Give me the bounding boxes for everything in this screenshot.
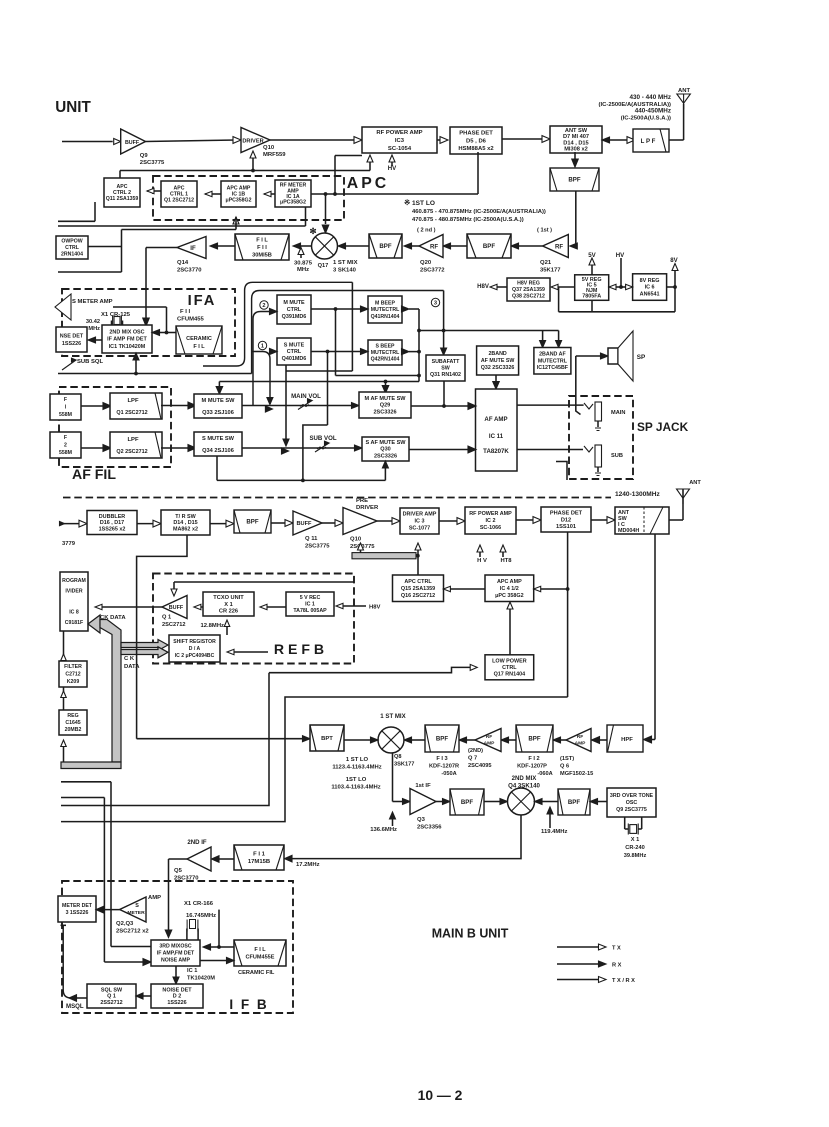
svg-text:Q33 2SJ106: Q33 2SJ106 bbox=[202, 410, 234, 416]
svg-text:558M: 558M bbox=[59, 450, 72, 456]
svg-text:( 2 nd ): ( 2 nd ) bbox=[417, 228, 436, 234]
svg-text:DATA: DATA bbox=[124, 664, 140, 670]
svg-text:T X / R X: T X / R X bbox=[612, 978, 635, 984]
svg-text:430 - 440 MHz: 430 - 440 MHz bbox=[629, 94, 671, 101]
svg-text:BUFF: BUFF bbox=[296, 521, 312, 527]
svg-text:Q8: Q8 bbox=[394, 754, 402, 760]
svg-text:K209: K209 bbox=[67, 679, 80, 685]
svg-text:TK10420M: TK10420M bbox=[187, 976, 215, 982]
svg-text:-060A: -060A bbox=[537, 771, 552, 777]
svg-text:Q31 RN1402: Q31 RN1402 bbox=[430, 372, 461, 378]
svg-text:BPF: BPF bbox=[436, 736, 448, 743]
svg-text:IF AMP,FM DET: IF AMP,FM DET bbox=[157, 951, 195, 957]
svg-text:AF FIL: AF FIL bbox=[72, 466, 116, 482]
svg-text:1103.4-1163.4MHz: 1103.4-1163.4MHz bbox=[331, 785, 380, 791]
svg-text:SC-1054: SC-1054 bbox=[388, 146, 412, 152]
svg-text:2BAND: 2BAND bbox=[488, 351, 506, 357]
svg-text:3779: 3779 bbox=[62, 541, 76, 547]
svg-text:SQL SW: SQL SW bbox=[101, 987, 123, 993]
svg-text:2ND MIX OSC: 2ND MIX OSC bbox=[109, 329, 144, 335]
svg-text:OWPOW: OWPOW bbox=[61, 239, 82, 245]
svg-text:F: F bbox=[64, 397, 67, 403]
svg-text:F I 1: F I 1 bbox=[253, 852, 265, 858]
svg-text:136.6MHz: 136.6MHz bbox=[370, 827, 397, 833]
svg-text:RF: RF bbox=[430, 244, 438, 251]
svg-text:Q38 2SC2712: Q38 2SC2712 bbox=[512, 294, 545, 300]
svg-text:RF POWER AMP: RF POWER AMP bbox=[469, 511, 512, 517]
svg-text:2ND IF: 2ND IF bbox=[187, 839, 207, 846]
svg-text:3 SK140: 3 SK140 bbox=[333, 268, 357, 274]
svg-text:Q34 2SJ106: Q34 2SJ106 bbox=[202, 448, 234, 454]
svg-text:30.42: 30.42 bbox=[86, 319, 100, 325]
svg-text:IC 4 1/2: IC 4 1/2 bbox=[500, 586, 519, 592]
svg-text:MA862 x2: MA862 x2 bbox=[173, 527, 198, 533]
svg-text:FILTER: FILTER bbox=[64, 664, 82, 670]
svg-text:HV: HV bbox=[616, 252, 625, 259]
svg-text:MAIN B UNIT: MAIN B UNIT bbox=[432, 927, 509, 941]
svg-text:1: 1 bbox=[261, 344, 264, 350]
svg-text:CR 226: CR 226 bbox=[219, 609, 238, 615]
svg-text:Q1 2SC2712: Q1 2SC2712 bbox=[116, 410, 147, 416]
svg-text:REG: REG bbox=[67, 713, 78, 719]
svg-text:2RN1404: 2RN1404 bbox=[61, 252, 83, 258]
svg-text:APC AMP: APC AMP bbox=[497, 579, 522, 585]
svg-text:C K: C K bbox=[124, 656, 135, 662]
svg-text:1SS265 x2: 1SS265 x2 bbox=[99, 527, 126, 533]
svg-text:BPF: BPF bbox=[379, 243, 391, 250]
svg-text:HSM88A5 x2: HSM88A5 x2 bbox=[458, 146, 494, 152]
svg-text:BPF: BPF bbox=[461, 799, 473, 806]
svg-text:X1 CR-166: X1 CR-166 bbox=[184, 901, 214, 907]
svg-text:UNIT: UNIT bbox=[55, 99, 91, 116]
svg-text:CFUM455E: CFUM455E bbox=[246, 954, 275, 960]
svg-text:AMP: AMP bbox=[148, 895, 161, 901]
svg-text:SW: SW bbox=[441, 366, 450, 372]
svg-text:Q401MD6: Q401MD6 bbox=[282, 356, 307, 362]
svg-text:440-450MHz: 440-450MHz bbox=[635, 108, 671, 115]
svg-text:R X: R X bbox=[612, 963, 622, 969]
svg-text:MI308 x2: MI308 x2 bbox=[564, 147, 588, 153]
svg-text:16.745MHz: 16.745MHz bbox=[186, 913, 216, 919]
svg-text:LPF: LPF bbox=[127, 398, 139, 404]
svg-text:Q20: Q20 bbox=[420, 260, 432, 266]
svg-text:R E F B: R E F B bbox=[274, 641, 324, 657]
svg-text:IVIDER: IVIDER bbox=[65, 589, 83, 595]
svg-text:BPF: BPF bbox=[528, 736, 540, 743]
svg-text:2: 2 bbox=[262, 303, 265, 309]
svg-text:2SC3775: 2SC3775 bbox=[305, 544, 330, 550]
svg-text:2SC3326: 2SC3326 bbox=[374, 453, 397, 459]
svg-text:Q42RN1404: Q42RN1404 bbox=[371, 357, 400, 363]
svg-text:Q17: Q17 bbox=[318, 263, 329, 269]
svg-text:AMP: AMP bbox=[484, 741, 496, 747]
svg-text:Q9 2SC3775: Q9 2SC3775 bbox=[616, 807, 647, 813]
svg-text:CK DATA: CK DATA bbox=[100, 615, 126, 621]
svg-text:F I L: F I L bbox=[254, 947, 266, 953]
svg-text:Q10: Q10 bbox=[350, 537, 362, 543]
svg-text:Q391MD6: Q391MD6 bbox=[282, 314, 307, 320]
svg-text:Q14: Q14 bbox=[177, 260, 189, 266]
svg-text:CTRL: CTRL bbox=[502, 665, 517, 671]
svg-text:TCXO UNIT: TCXO UNIT bbox=[213, 595, 244, 601]
svg-text:10 — 2: 10 — 2 bbox=[418, 1087, 463, 1103]
svg-text:Q2,Q3: Q2,Q3 bbox=[116, 921, 134, 927]
svg-text:3RD OVER TONE: 3RD OVER TONE bbox=[610, 793, 654, 799]
svg-text:Q 7: Q 7 bbox=[468, 756, 477, 762]
svg-text:AF MUTE SW: AF MUTE SW bbox=[481, 358, 515, 364]
svg-text:SP: SP bbox=[637, 354, 645, 361]
svg-text:NOISE AMP: NOISE AMP bbox=[161, 958, 190, 964]
svg-text:SC-1066: SC-1066 bbox=[480, 525, 501, 531]
svg-text:IF AMP FM DET: IF AMP FM DET bbox=[107, 337, 147, 343]
svg-text:IC 8: IC 8 bbox=[69, 610, 79, 616]
svg-text:MHz: MHz bbox=[297, 267, 309, 273]
svg-text:2SC2712: 2SC2712 bbox=[162, 622, 186, 628]
svg-text:D14 , D15: D14 , D15 bbox=[563, 140, 588, 146]
svg-text:MAIN: MAIN bbox=[611, 410, 625, 416]
svg-text:I F B: I F B bbox=[229, 997, 268, 1012]
svg-text:IC 2: IC 2 bbox=[486, 518, 496, 524]
svg-text:BPF: BPF bbox=[246, 519, 258, 526]
svg-text:SP JACK: SP JACK bbox=[637, 420, 689, 434]
svg-text:-050A: -050A bbox=[441, 771, 456, 777]
svg-text:D14 , D15: D14 , D15 bbox=[173, 520, 197, 526]
svg-text:Q 11: Q 11 bbox=[305, 536, 318, 542]
svg-text:CR-240: CR-240 bbox=[625, 845, 644, 851]
svg-text:3RD MIXOSC: 3RD MIXOSC bbox=[159, 944, 192, 950]
svg-text:C1645: C1645 bbox=[65, 720, 80, 726]
svg-text:NSE DET: NSE DET bbox=[60, 334, 84, 340]
svg-text:2ND MIX: 2ND MIX bbox=[512, 775, 538, 782]
svg-text:8V REG: 8V REG bbox=[640, 278, 660, 284]
svg-text:20MB2: 20MB2 bbox=[65, 727, 82, 733]
svg-text:30MI5B: 30MI5B bbox=[252, 252, 272, 258]
svg-text:2SC3770: 2SC3770 bbox=[177, 268, 202, 274]
svg-text:METER: METER bbox=[127, 910, 145, 916]
svg-text:1123.4-1163.4MHz: 1123.4-1163.4MHz bbox=[332, 765, 381, 771]
svg-text:F I I: F I I bbox=[180, 309, 190, 315]
svg-text:MHz: MHz bbox=[88, 326, 100, 332]
svg-text:MD004H: MD004H bbox=[618, 528, 639, 534]
svg-text:IC 11: IC 11 bbox=[489, 433, 504, 440]
svg-text:Q16 2SC2712: Q16 2SC2712 bbox=[401, 593, 435, 599]
svg-text:APC: APC bbox=[347, 175, 389, 192]
svg-text:CFUM455: CFUM455 bbox=[177, 317, 205, 323]
svg-text:1SS226: 1SS226 bbox=[62, 341, 81, 347]
svg-text:119.4MHz: 119.4MHz bbox=[541, 829, 568, 835]
svg-text:S MUTE: S MUTE bbox=[284, 342, 305, 348]
svg-text:IC 6: IC 6 bbox=[645, 285, 655, 291]
svg-text:SHIFT REGISTOR: SHIFT REGISTOR bbox=[173, 639, 216, 645]
svg-text:L P F: L P F bbox=[641, 138, 656, 145]
svg-text:KDF-1207R: KDF-1207R bbox=[429, 764, 459, 770]
svg-text:IC3: IC3 bbox=[395, 138, 405, 144]
svg-text:12.8MHz: 12.8MHz bbox=[200, 623, 224, 629]
svg-text:Q3: Q3 bbox=[417, 817, 426, 823]
svg-text:LPF: LPF bbox=[127, 437, 139, 443]
svg-text:M BEEP: M BEEP bbox=[375, 300, 395, 306]
svg-text:BUFF: BUFF bbox=[169, 605, 184, 611]
svg-text:APC CTRL: APC CTRL bbox=[404, 579, 432, 585]
svg-text:SC-1077: SC-1077 bbox=[409, 526, 430, 532]
svg-text:DRIVER: DRIVER bbox=[356, 505, 379, 511]
svg-text:1240-1300MHz: 1240-1300MHz bbox=[615, 491, 660, 498]
svg-text:(2ND): (2ND) bbox=[468, 748, 483, 754]
svg-text:H8V: H8V bbox=[477, 283, 490, 290]
svg-text:H8V: H8V bbox=[369, 605, 381, 611]
svg-text:3 1SS226: 3 1SS226 bbox=[66, 910, 89, 916]
svg-text:2: 2 bbox=[64, 443, 67, 449]
svg-text:D 2: D 2 bbox=[173, 994, 181, 1000]
svg-text:2SC4095: 2SC4095 bbox=[468, 763, 492, 769]
svg-text:( 1st ): ( 1st ) bbox=[537, 228, 552, 234]
svg-text:17M15B: 17M15B bbox=[248, 859, 270, 865]
svg-text:IC 1: IC 1 bbox=[187, 968, 197, 974]
svg-text:Q2 2SC2712: Q2 2SC2712 bbox=[116, 449, 147, 455]
svg-text:NOISE DET: NOISE DET bbox=[162, 987, 192, 993]
svg-text:Q5: Q5 bbox=[174, 868, 183, 874]
svg-text:17.2MHz: 17.2MHz bbox=[296, 862, 320, 868]
svg-text:Q41RN1404: Q41RN1404 bbox=[371, 314, 400, 320]
svg-text:D / A: D / A bbox=[189, 646, 201, 652]
svg-text:1st IF: 1st IF bbox=[415, 783, 431, 789]
svg-text:2SC3775: 2SC3775 bbox=[140, 160, 165, 166]
svg-text:Q4 3SK140: Q4 3SK140 bbox=[508, 783, 540, 790]
svg-text:Q21: Q21 bbox=[540, 260, 552, 266]
svg-text:RF POWER AMP: RF POWER AMP bbox=[376, 130, 422, 136]
svg-text:5 V REC: 5 V REC bbox=[300, 595, 321, 601]
svg-text:TA8207K: TA8207K bbox=[483, 448, 509, 455]
svg-text:PRE: PRE bbox=[356, 498, 368, 504]
svg-text:HPF: HPF bbox=[621, 737, 633, 743]
svg-text:Q11 2SA1359: Q11 2SA1359 bbox=[106, 196, 139, 202]
svg-text:F I L: F I L bbox=[256, 237, 268, 243]
svg-text:39.8MHz: 39.8MHz bbox=[624, 853, 647, 859]
svg-text:(1ST): (1ST) bbox=[560, 756, 574, 762]
svg-text:ANT: ANT bbox=[678, 88, 690, 94]
svg-text:✻: ✻ bbox=[309, 226, 316, 236]
svg-text:IF: IF bbox=[190, 245, 196, 252]
svg-text:RF: RF bbox=[577, 734, 584, 740]
svg-text:μPC358G2: μPC358G2 bbox=[226, 198, 252, 204]
svg-text:M MUTE SW: M MUTE SW bbox=[202, 398, 236, 404]
svg-text:35K177: 35K177 bbox=[540, 268, 561, 274]
svg-text:460.875 - 470.875MHz (IC-2500E: 460.875 - 470.875MHz (IC-2500E/A(AUSTRAL… bbox=[412, 209, 546, 215]
svg-text:IC 1: IC 1 bbox=[305, 602, 315, 608]
svg-text:CERAMIC FIL: CERAMIC FIL bbox=[238, 970, 275, 976]
svg-text:BPT: BPT bbox=[321, 736, 333, 742]
svg-text:Q9: Q9 bbox=[140, 153, 149, 159]
svg-text:S MUTE SW: S MUTE SW bbox=[202, 436, 235, 442]
svg-text:DRIVER AMP: DRIVER AMP bbox=[403, 512, 437, 518]
svg-text:2SC2712 x2: 2SC2712 x2 bbox=[116, 929, 149, 935]
svg-text:DRIVER: DRIVER bbox=[242, 139, 263, 145]
svg-text:IC 3: IC 3 bbox=[415, 519, 425, 525]
svg-text:D16 , D17: D16 , D17 bbox=[100, 520, 124, 526]
svg-text:BUFF: BUFF bbox=[125, 140, 140, 146]
svg-text:H8V REG: H8V REG bbox=[517, 281, 540, 287]
svg-text:ANT: ANT bbox=[689, 480, 701, 486]
svg-text:D5 , D6: D5 , D6 bbox=[466, 138, 487, 144]
svg-text:Q32 2SC3326: Q32 2SC3326 bbox=[481, 365, 515, 371]
svg-text:F I 2: F I 2 bbox=[528, 756, 539, 762]
svg-text:MAIN VOL: MAIN VOL bbox=[291, 393, 321, 400]
svg-text:X 1: X 1 bbox=[224, 602, 232, 608]
svg-text:AF AMP: AF AMP bbox=[484, 416, 507, 423]
svg-text:Q 6: Q 6 bbox=[560, 764, 569, 770]
svg-text:LOW POWER: LOW POWER bbox=[492, 658, 527, 664]
svg-text:3SK177: 3SK177 bbox=[394, 762, 414, 768]
svg-text:8V: 8V bbox=[670, 257, 678, 264]
svg-text:1SS226: 1SS226 bbox=[167, 1000, 186, 1006]
svg-text:2SS2712: 2SS2712 bbox=[100, 1000, 122, 1006]
svg-text:ANT SW: ANT SW bbox=[565, 128, 588, 134]
svg-text:Q30: Q30 bbox=[380, 447, 390, 453]
svg-text:MUTECTRL: MUTECTRL bbox=[538, 358, 568, 364]
svg-text:(IC-2500A(U.S.A.)): (IC-2500A(U.S.A.)) bbox=[621, 115, 671, 121]
svg-text:Q17 RN1404: Q17 RN1404 bbox=[494, 672, 526, 678]
svg-text:CTRL: CTRL bbox=[65, 245, 80, 251]
svg-text:※: ※ bbox=[404, 198, 410, 207]
svg-text:H V: H V bbox=[477, 558, 487, 564]
svg-text:F I I: F I I bbox=[257, 245, 267, 251]
svg-text:F: F bbox=[64, 435, 67, 441]
svg-text:D12: D12 bbox=[561, 517, 571, 523]
svg-text:2SC3356: 2SC3356 bbox=[417, 825, 442, 831]
svg-text:Q 1: Q 1 bbox=[162, 615, 171, 621]
svg-text:DUBBLER: DUBBLER bbox=[99, 514, 126, 520]
svg-text:TA78L 005AP: TA78L 005AP bbox=[293, 608, 327, 614]
svg-text:2SC3326: 2SC3326 bbox=[373, 410, 396, 416]
svg-text:RF: RF bbox=[486, 734, 493, 740]
svg-text:Q 1: Q 1 bbox=[107, 994, 116, 1000]
svg-text:1 ST LO: 1 ST LO bbox=[346, 757, 369, 763]
svg-text:IC1 TK10420M: IC1 TK10420M bbox=[109, 344, 146, 350]
svg-text:1ST LO: 1ST LO bbox=[346, 777, 367, 783]
svg-text:3: 3 bbox=[434, 301, 437, 307]
svg-text:MGF1502-15: MGF1502-15 bbox=[560, 771, 593, 777]
svg-text:AN6541: AN6541 bbox=[640, 292, 660, 298]
svg-text:IC 2 μPC4094BC: IC 2 μPC4094BC bbox=[175, 653, 215, 659]
svg-text:CTRL: CTRL bbox=[287, 349, 302, 355]
svg-text:S: S bbox=[135, 903, 139, 909]
svg-text:7805FA: 7805FA bbox=[582, 294, 601, 300]
svg-text:Q37 2SA1359: Q37 2SA1359 bbox=[512, 287, 545, 293]
svg-text:M AF MUTE SW: M AF MUTE SW bbox=[365, 396, 407, 402]
svg-text:μPC 358G2: μPC 358G2 bbox=[495, 593, 524, 599]
svg-text:S AF MUTE SW: S AF MUTE SW bbox=[365, 440, 406, 446]
svg-text:PHASE DET: PHASE DET bbox=[550, 511, 583, 517]
svg-text:METER DET: METER DET bbox=[62, 903, 93, 909]
svg-text:SUB SQL: SUB SQL bbox=[77, 359, 104, 365]
svg-text:Q10: Q10 bbox=[263, 145, 275, 151]
svg-text:KDF-1207P: KDF-1207P bbox=[517, 764, 547, 770]
svg-text:1ST LO: 1ST LO bbox=[412, 200, 435, 207]
svg-text:RF: RF bbox=[555, 244, 563, 251]
svg-text:Q1 2SC2712: Q1 2SC2712 bbox=[164, 198, 194, 204]
svg-text:HT8: HT8 bbox=[500, 558, 512, 564]
svg-text:MSQL: MSQL bbox=[66, 1003, 84, 1010]
svg-text:HV: HV bbox=[388, 165, 397, 172]
svg-text:T X: T X bbox=[612, 946, 621, 952]
svg-text:SUB VOL: SUB VOL bbox=[309, 435, 336, 442]
svg-text:MUTECTRL: MUTECTRL bbox=[371, 307, 400, 313]
svg-text:470.875 - 480.875MHz (IC-2500A: 470.875 - 480.875MHz (IC-2500A(U.S.A.)) bbox=[412, 217, 524, 223]
svg-text:C9181F: C9181F bbox=[65, 620, 83, 626]
svg-text:1 ST MIX: 1 ST MIX bbox=[333, 260, 358, 266]
svg-text:S BEEP: S BEEP bbox=[375, 344, 395, 350]
svg-text:BPF: BPF bbox=[483, 243, 495, 250]
svg-text:CERAMIC: CERAMIC bbox=[186, 336, 212, 342]
svg-text:IC12TC45BF: IC12TC45BF bbox=[537, 365, 569, 371]
svg-text:MUTECTRL: MUTECTRL bbox=[371, 350, 400, 356]
svg-text:CTRL: CTRL bbox=[287, 307, 302, 313]
svg-text:X 1: X 1 bbox=[631, 837, 639, 843]
svg-text:μPC358G2: μPC358G2 bbox=[280, 200, 306, 206]
svg-text:SUBAFATT: SUBAFATT bbox=[432, 359, 461, 365]
svg-text:MRF559: MRF559 bbox=[263, 152, 286, 158]
svg-text:C2712: C2712 bbox=[65, 672, 80, 678]
svg-text:PHASE DET: PHASE DET bbox=[459, 131, 493, 137]
svg-text:558M: 558M bbox=[59, 412, 72, 418]
svg-text:T/ R SW: T/ R SW bbox=[175, 514, 196, 520]
svg-text:1 ST MIX: 1 ST MIX bbox=[380, 713, 406, 720]
svg-text:2SC3772: 2SC3772 bbox=[420, 268, 445, 274]
svg-text:D7 MI 407: D7 MI 407 bbox=[563, 134, 589, 140]
svg-text:M MUTE: M MUTE bbox=[283, 300, 305, 306]
svg-text:IFA: IFA bbox=[188, 293, 217, 309]
svg-text:BPF: BPF bbox=[568, 799, 580, 806]
svg-text:2BAND AF: 2BAND AF bbox=[539, 352, 566, 358]
svg-text:SUB: SUB bbox=[611, 453, 623, 459]
svg-text:Q29: Q29 bbox=[380, 403, 390, 409]
svg-text:ROGRAM: ROGRAM bbox=[62, 578, 86, 584]
svg-text:BPF: BPF bbox=[568, 177, 580, 184]
svg-text:S METER AMP: S METER AMP bbox=[72, 299, 113, 305]
svg-text:30.875: 30.875 bbox=[294, 261, 313, 267]
svg-text:F I 3: F I 3 bbox=[436, 756, 447, 762]
svg-text:OSC: OSC bbox=[626, 800, 638, 806]
svg-text:AMP: AMP bbox=[575, 741, 587, 747]
svg-text:1SS101: 1SS101 bbox=[556, 524, 576, 530]
svg-text:Q15 2SA1359: Q15 2SA1359 bbox=[401, 586, 435, 592]
svg-text:F I L: F I L bbox=[193, 344, 205, 350]
